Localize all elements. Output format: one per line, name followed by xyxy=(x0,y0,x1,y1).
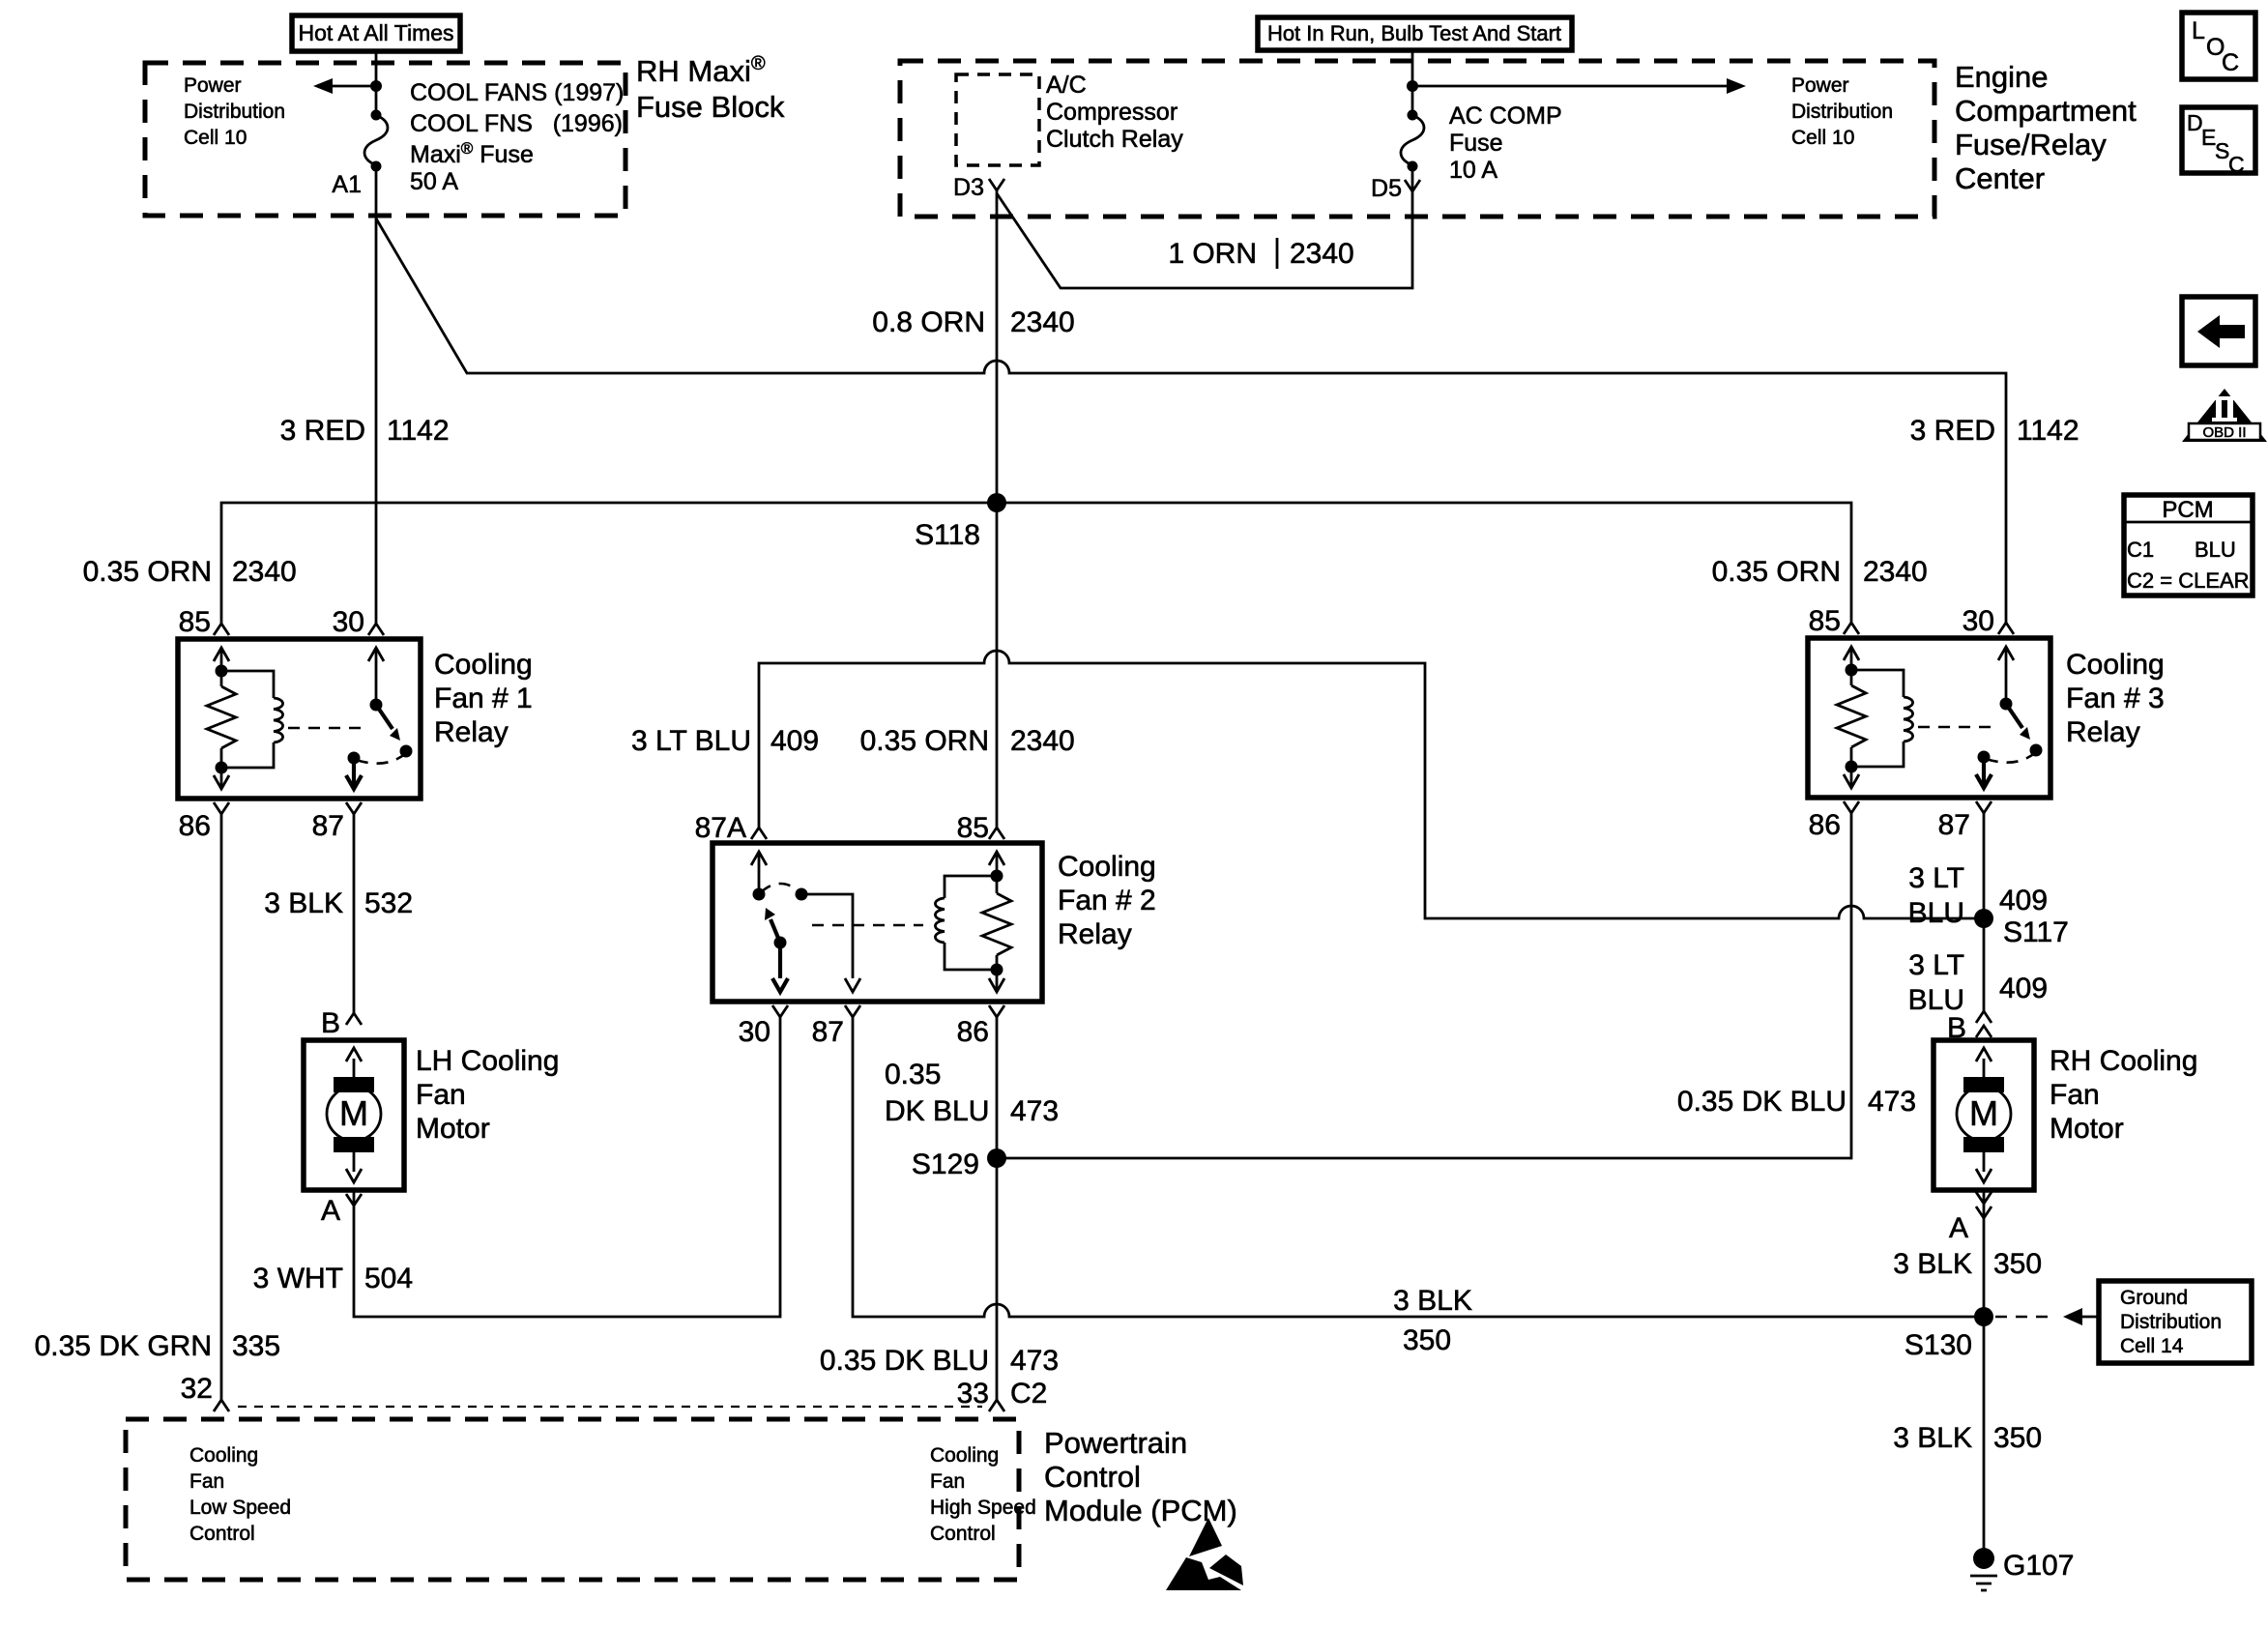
svg-text:50 A: 50 A xyxy=(410,168,458,195)
svg-text:LH Cooling: LH Cooling xyxy=(416,1045,559,1077)
svg-text:350: 350 xyxy=(1993,1248,2042,1280)
svg-text:High Speed: High Speed xyxy=(930,1497,1036,1519)
svg-text:Fan: Fan xyxy=(930,1470,965,1493)
svg-text:Cooling: Cooling xyxy=(189,1444,258,1467)
svg-text:Relay: Relay xyxy=(2066,716,2140,748)
wire: D3 down to S118 (0.8 ORN 2340) xyxy=(996,190,999,503)
svg-text:Distribution: Distribution xyxy=(1791,101,1893,123)
svg-text:BLU: BLU xyxy=(2195,538,2236,562)
text: AC COMP Fuse 10 A xyxy=(1449,102,1562,184)
svg-text:2340: 2340 xyxy=(1863,556,1928,588)
svg-text:3 BLK: 3 BLK xyxy=(1893,1422,1972,1454)
relay K2 actuator dashed link xyxy=(812,924,923,927)
svg-text:85: 85 xyxy=(1809,605,1841,637)
splice S129 xyxy=(912,1148,1006,1180)
wire: relay2 87A up and across to S117 (3 LT BLU 409) xyxy=(759,651,1984,918)
label: 0.8 ORN 2340 xyxy=(872,306,1074,338)
svg-text:S117: S117 xyxy=(2003,916,2069,948)
ground G107 xyxy=(1970,1548,2074,1590)
LH Cooling Fan Motor M1 xyxy=(304,1040,404,1190)
svg-text:S130: S130 xyxy=(1905,1329,1972,1361)
Ground Distribution Cell 14 box xyxy=(2099,1281,2252,1363)
svg-text:Fan: Fan xyxy=(189,1470,224,1493)
svg-text:3 LT: 3 LT xyxy=(1908,949,1964,981)
wire: RH motor A down to G107 (3 BLK 350) xyxy=(1983,1190,1986,1558)
Engine Compartment Fuse/Relay Center dashed box xyxy=(900,61,1934,217)
svg-text:G107: G107 xyxy=(2003,1550,2074,1582)
wire: relay3 pin 86 across to S129 (0.35 DK BLU 473) xyxy=(997,813,1851,1158)
header label box: Hot At All Times xyxy=(292,15,460,51)
svg-text:409: 409 xyxy=(1999,885,2048,916)
RH motor pin B (double chevron) xyxy=(1947,1011,1992,1044)
label: 0.35 DK GRN 335 xyxy=(35,1330,280,1362)
label: 3 BLK 350 (above S130) xyxy=(1893,1248,2042,1280)
pin D5 xyxy=(1371,175,1420,202)
sidebar OBD II triangle xyxy=(2182,389,2267,442)
svg-text:M: M xyxy=(339,1093,368,1133)
svg-text:Power: Power xyxy=(184,74,242,97)
label: 3 LT BLU 409 (above S117) xyxy=(1908,862,2048,929)
svg-text:3 BLK: 3 BLK xyxy=(1393,1285,1472,1317)
junction dot at fuse feed xyxy=(370,80,382,92)
svg-text:Relay: Relay xyxy=(1058,918,1132,950)
svg-text:M: M xyxy=(1969,1093,1998,1133)
svg-text:A/C: A/C xyxy=(1046,72,1087,99)
text: Cooling Fan # 2 Relay xyxy=(1058,851,1156,950)
text: Cooling Fan # 3 Relay xyxy=(2066,649,2165,748)
svg-text:3 BLK: 3 BLK xyxy=(1893,1248,1972,1280)
relay K2 switch xyxy=(751,852,860,992)
relay K2 pin 86 xyxy=(957,1005,1004,1048)
svg-text:3 BLK: 3 BLK xyxy=(264,887,343,919)
relay K2 box (Cooling Fan 2 Relay) xyxy=(712,843,1042,1002)
svg-text:COOL FNS (1996): COOL FNS (1996) xyxy=(410,110,623,137)
svg-text:3 LT: 3 LT xyxy=(1908,862,1964,894)
svg-text:Fan: Fan xyxy=(2050,1079,2100,1111)
svg-text:85: 85 xyxy=(179,606,211,638)
svg-text:1142: 1142 xyxy=(2017,415,2079,447)
svg-text:Center: Center xyxy=(1955,161,2045,195)
svg-text:87: 87 xyxy=(812,1016,844,1048)
LH motor pin B xyxy=(321,1007,362,1039)
label: 0.35 DK BLU 473 (at PCM) xyxy=(820,1345,1059,1377)
svg-text:30: 30 xyxy=(333,606,364,638)
svg-text:PCM: PCM xyxy=(2162,497,2213,523)
svg-text:0.35 DK BLU: 0.35 DK BLU xyxy=(820,1345,989,1377)
svg-text:A: A xyxy=(321,1195,340,1227)
svg-text:Cooling: Cooling xyxy=(434,649,533,681)
LH motor pin A xyxy=(321,1194,362,1227)
svg-text:RH Maxi®: RH Maxi® xyxy=(636,53,766,88)
wire: relay2 pin 87 to ground bus (3 BLK 350, hops over DK BLU) xyxy=(853,1017,1984,1317)
relay K3 box (Cooling Fan 3 Relay) xyxy=(1808,638,2050,798)
sidebar LOC box xyxy=(2182,13,2255,79)
svg-text:0.35 ORN: 0.35 ORN xyxy=(83,556,212,588)
svg-text:350: 350 xyxy=(1993,1422,2042,1454)
text: Cooling Fan # 1 Relay xyxy=(434,649,533,748)
wire: Hot In Run down to AC COMP fuse xyxy=(1411,49,1414,115)
svg-text:1 ORN: 1 ORN xyxy=(1168,238,1257,270)
label: 0.35 DK BLU 473 (right) xyxy=(1677,1086,1916,1118)
svg-text:Control: Control xyxy=(189,1523,255,1545)
relay K3 switch xyxy=(1976,647,2043,788)
label: 0.35 ORN 2340 (far right) xyxy=(1712,556,1928,588)
svg-text:3 WHT: 3 WHT xyxy=(253,1263,343,1294)
svg-text:2340: 2340 xyxy=(1010,725,1075,757)
svg-text:3 RED: 3 RED xyxy=(1910,415,1995,447)
svg-text:Control: Control xyxy=(1044,1460,1141,1494)
text: Power Distribution Cell 10 (left) xyxy=(184,74,285,149)
text: COOL FANS fuse description xyxy=(410,79,624,195)
wire: 3 RED branch across top (hops over ORN wire) xyxy=(376,218,2006,623)
svg-text:Ground: Ground xyxy=(2120,1287,2188,1309)
svg-text:A1: A1 xyxy=(332,171,362,198)
wire: A1 down to Cooling Fan 1 Relay pin 30 (3 RED 1142) xyxy=(375,166,378,624)
svg-text:C1: C1 xyxy=(2127,538,2154,562)
relay K3 actuator dashed link xyxy=(1918,726,1997,729)
svg-text:D3: D3 xyxy=(953,174,984,201)
wire: LH motor A to relay2 pin 30 (3 WHT 504) xyxy=(354,1017,780,1317)
wire: relay2 pin 86 down to PCM pin 33 (0.35 DK BLU 473) xyxy=(996,1017,999,1400)
svg-text:Distribution: Distribution xyxy=(2120,1311,2222,1333)
label: 3 BLK 532 xyxy=(264,887,413,919)
svg-text:Fuse: Fuse xyxy=(1449,130,1503,157)
svg-text:Fan: Fan xyxy=(416,1079,466,1111)
relay K2 pin 87A xyxy=(695,812,767,844)
relay K1 coil branch with arrows xyxy=(207,648,236,789)
svg-text:87: 87 xyxy=(1938,809,1970,841)
svg-text:3 LT BLU: 3 LT BLU xyxy=(631,725,751,757)
svg-text:Cell 10: Cell 10 xyxy=(184,127,247,149)
text: Engine Compartment Fuse/Relay Center title xyxy=(1955,60,2137,195)
label: 3 BLK 350 (below S130) xyxy=(1893,1422,2042,1454)
svg-text:0.35 ORN: 0.35 ORN xyxy=(860,725,989,757)
relay K3 pin 85 xyxy=(1809,605,1859,637)
RH Cooling Fan Motor M2 xyxy=(1934,1040,2034,1190)
label: 0.35 ORN 2340 (center) xyxy=(860,725,1075,757)
relay K1 switch xyxy=(346,648,413,789)
svg-text:S118: S118 xyxy=(915,519,980,551)
junction dot at AC COMP fuse feed xyxy=(1407,80,1418,92)
svg-text:32: 32 xyxy=(181,1373,213,1405)
svg-text:Distribution: Distribution xyxy=(184,101,285,123)
svg-text:C2 = CLEAR: C2 = CLEAR xyxy=(2127,568,2250,593)
text: Powertrain Control Module (PCM) xyxy=(1044,1426,1237,1527)
wire: S118 down to relay 2 pin 85 (0.35 ORN 2340) xyxy=(996,503,999,828)
relay K1 pin 30 xyxy=(333,606,384,638)
relay K2 pin 85 xyxy=(957,812,1004,844)
fuse: AC COMP Fuse 10 A xyxy=(1401,110,1424,172)
svg-text:30: 30 xyxy=(739,1016,771,1048)
relay K1 actuator dashed link xyxy=(288,727,367,730)
svg-text:Fan # 1: Fan # 1 xyxy=(434,683,533,714)
A/C Compressor Clutch Relay dashed box xyxy=(956,74,1039,165)
wire: relay3 pin 87 down to RH motor B (3 LT BLU 409) xyxy=(1983,813,1986,1011)
relay K2 coil loop xyxy=(935,876,997,970)
svg-text:C2: C2 xyxy=(1010,1378,1047,1410)
svg-text:85: 85 xyxy=(957,812,989,844)
svg-text:1142: 1142 xyxy=(387,415,450,447)
label: 3 LT BLU 409 (below S117) xyxy=(1908,949,2048,1016)
svg-text:Low Speed: Low Speed xyxy=(189,1497,291,1519)
svg-text:Fan # 2: Fan # 2 xyxy=(1058,885,1156,916)
label: 3 LT BLU 409 (left of relay2) xyxy=(631,725,819,757)
svg-text:Motor: Motor xyxy=(2050,1113,2124,1145)
fuse: COOL FANS Maxi Fuse 50 A xyxy=(364,110,388,172)
svg-text:RH Cooling: RH Cooling xyxy=(2050,1045,2197,1077)
svg-text:B: B xyxy=(321,1007,340,1039)
svg-text:350: 350 xyxy=(1403,1324,1451,1356)
svg-text:S129: S129 xyxy=(912,1148,979,1180)
label: 0.35 ORN 2340 (far left) xyxy=(83,556,297,588)
relay K3 coil branch with arrows xyxy=(1837,647,1866,788)
splice S130 xyxy=(1905,1307,1993,1361)
svg-text:Powertrain: Powertrain xyxy=(1044,1426,1187,1460)
Powertrain Control Module dashed box xyxy=(126,1419,1019,1580)
svg-text:Relay: Relay xyxy=(434,716,509,748)
svg-text:OBD II: OBD II xyxy=(2202,424,2246,441)
svg-text:Compartment: Compartment xyxy=(1955,94,2137,128)
svg-text:Cooling: Cooling xyxy=(930,1444,999,1467)
label: 3 WHT 504 xyxy=(253,1263,413,1294)
svg-text:D5: D5 xyxy=(1371,175,1402,202)
wire: S118 bus to relay 1 pin 85 and relay 3 pin 85 xyxy=(221,503,1851,624)
svg-text:0.35: 0.35 xyxy=(885,1059,941,1090)
svg-text:Cooling: Cooling xyxy=(1058,851,1156,883)
svg-text:87A: 87A xyxy=(695,812,746,844)
RH Maxi Fuse Block dashed box xyxy=(145,63,625,216)
svg-text:86: 86 xyxy=(1809,809,1841,841)
svg-text:87: 87 xyxy=(312,810,344,842)
sidebar PCM connector color table xyxy=(2124,495,2253,596)
svg-text:30: 30 xyxy=(1963,605,1994,637)
svg-text:COOL FANS (1997): COOL FANS (1997) xyxy=(410,79,624,106)
pin D3 xyxy=(953,174,1004,201)
relay K3 pin 87 xyxy=(1938,801,1992,841)
svg-text:0.35 DK GRN: 0.35 DK GRN xyxy=(35,1330,212,1362)
svg-text:3 RED: 3 RED xyxy=(280,415,365,447)
wire: Hot At All Times down to fuse xyxy=(375,51,378,115)
svg-text:473: 473 xyxy=(1010,1345,1059,1377)
relay K1 pin 86 xyxy=(179,802,229,842)
svg-text:0.35 ORN: 0.35 ORN xyxy=(1712,556,1841,588)
label: 3 RED 1142 (left) xyxy=(280,415,450,447)
relay K2 pin 87 xyxy=(812,1005,860,1048)
svg-text:Cell 10: Cell 10 xyxy=(1791,127,1854,149)
label: 3 RED 1142 (right) xyxy=(1910,415,2079,447)
wire: D5 to D3 link (1 ORN 2340) xyxy=(997,166,1412,288)
svg-text:Hot In Run, Bulb Test And Star: Hot In Run, Bulb Test And Start xyxy=(1267,21,1561,45)
svg-text:Motor: Motor xyxy=(416,1113,490,1145)
text: Power Distribution Cell 10 (right) xyxy=(1791,74,1893,149)
svg-text:532: 532 xyxy=(364,887,413,919)
RH motor pin A (double chevron) xyxy=(1949,1192,1992,1244)
label: 0.35 DK BLU 473 (two lines) xyxy=(885,1059,1059,1127)
svg-text:2340: 2340 xyxy=(1010,306,1075,338)
splice S117 xyxy=(1974,909,2069,948)
PCM pin 32 xyxy=(181,1373,229,1411)
svg-text:86: 86 xyxy=(957,1016,989,1048)
text: LH Cooling Fan Motor xyxy=(416,1045,559,1145)
relay K2 coil branch with arrows xyxy=(982,852,1011,992)
relay K3 pin 30 xyxy=(1963,605,2014,637)
text: A/C Compressor Clutch Relay xyxy=(1046,72,1183,153)
svg-text:0.35 DK BLU: 0.35 DK BLU xyxy=(1677,1086,1846,1118)
wire: relay1 pin 87 down to LH motor B (3 BLK 532) xyxy=(353,814,356,1013)
relay K1 pin 87 xyxy=(312,802,362,842)
relay K3 coil loop xyxy=(1851,670,1913,767)
text: RH Maxi Fuse Block title xyxy=(636,53,785,124)
label: 3 BLK 350 (center) xyxy=(1393,1285,1472,1356)
text: Cooling Fan Low Speed Control xyxy=(189,1444,291,1545)
svg-text:2340: 2340 xyxy=(232,556,297,588)
svg-text:Control: Control xyxy=(930,1523,996,1545)
relay K3 pin 86 xyxy=(1809,801,1859,841)
svg-text:C: C xyxy=(2222,49,2239,76)
splice S118 xyxy=(915,493,1006,551)
wire: relay1 pin 86 down to PCM pin 32 (0.35 DK GRN 335) xyxy=(220,814,223,1400)
svg-text:BLU: BLU xyxy=(1908,897,1964,929)
svg-text:Engine: Engine xyxy=(1955,60,2049,94)
dashed link to Ground Distribution with arrow xyxy=(1995,1308,2099,1325)
svg-text:Cell 14: Cell 14 xyxy=(2120,1335,2184,1357)
label: 1 ORN 2340 xyxy=(1168,238,1353,270)
svg-text:504: 504 xyxy=(364,1263,413,1294)
svg-text:10 A: 10 A xyxy=(1449,157,1497,184)
relay K1 coil loop xyxy=(221,671,283,768)
svg-text:0.8 ORN: 0.8 ORN xyxy=(872,306,985,338)
PCM connector C2 dashed line xyxy=(238,1406,982,1408)
svg-text:409: 409 xyxy=(771,725,819,757)
svg-text:Cooling: Cooling xyxy=(2066,649,2165,681)
ESD sensitive device symbol xyxy=(1166,1518,1243,1590)
svg-text:33: 33 xyxy=(957,1378,989,1410)
relay K1 box (Cooling Fan 1 Relay) xyxy=(178,639,421,799)
relay K1 pin 85 xyxy=(179,606,229,638)
svg-text:473: 473 xyxy=(1010,1095,1059,1127)
svg-text:Power: Power xyxy=(1791,74,1849,97)
svg-text:Clutch Relay: Clutch Relay xyxy=(1046,126,1183,153)
svg-text:Compressor: Compressor xyxy=(1046,99,1178,126)
svg-text:DK BLU: DK BLU xyxy=(885,1095,989,1127)
text: RH Cooling Fan Motor xyxy=(2050,1045,2197,1145)
relay K2 pin 30 xyxy=(739,1005,788,1048)
svg-text:A: A xyxy=(1949,1212,1968,1244)
svg-text:C: C xyxy=(2228,152,2245,177)
svg-text:473: 473 xyxy=(1868,1086,1916,1118)
sidebar DESC box xyxy=(2182,107,2255,177)
svg-text:409: 409 xyxy=(1999,973,2048,1004)
svg-text:86: 86 xyxy=(179,810,211,842)
svg-text:Hot At All Times: Hot At All Times xyxy=(298,20,453,45)
arrow to Power Distribution (points right) xyxy=(1412,78,1746,94)
svg-text:Fan # 3: Fan # 3 xyxy=(2066,683,2165,714)
svg-text:Fuse/Relay: Fuse/Relay xyxy=(1955,128,2107,161)
svg-text:Fuse Block: Fuse Block xyxy=(636,90,785,124)
text: Cooling Fan High Speed Control xyxy=(930,1444,1036,1545)
svg-text:2340: 2340 xyxy=(1290,238,1354,270)
header label box: Hot In Run, Bulb Test And Start xyxy=(1258,17,1572,50)
sidebar back-arrow box xyxy=(2182,297,2255,365)
svg-text:L: L xyxy=(2192,17,2205,44)
svg-text:AC COMP: AC COMP xyxy=(1449,102,1562,130)
PCM pin 33 C2 xyxy=(957,1378,1048,1411)
arrow to Power Distribution (points left) xyxy=(313,78,376,94)
svg-text:335: 335 xyxy=(232,1330,280,1362)
